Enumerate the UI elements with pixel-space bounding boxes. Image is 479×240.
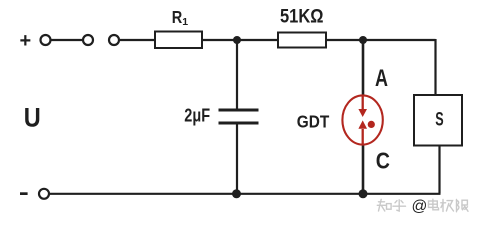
svg-text:A: A: [375, 65, 388, 92]
svg-text:1: 1: [182, 16, 188, 28]
svg-text:GDT: GDT: [297, 112, 330, 132]
svg-text:+: +: [20, 30, 32, 52]
svg-text:51KΩ: 51KΩ: [280, 6, 324, 28]
svg-text:C: C: [376, 147, 390, 173]
svg-text:S: S: [435, 109, 443, 131]
svg-text:2μF: 2μF: [184, 104, 210, 125]
svg-text:R: R: [172, 7, 183, 27]
svg-text:U: U: [24, 102, 41, 132]
svg-text:@: @: [412, 198, 428, 215]
